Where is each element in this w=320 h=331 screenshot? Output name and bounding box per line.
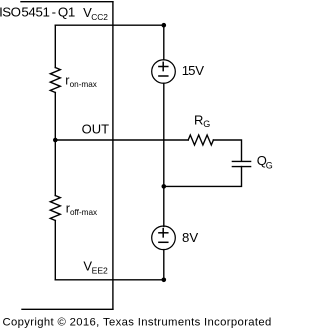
device outline right edge [112, 2, 114, 310]
voltage source V2 plus sign [159, 232, 168, 234]
svg-text:15: 15 [182, 63, 195, 78]
svg-text:G: G [266, 161, 273, 171]
device outline top edge [21, 1, 113, 3]
svg-text:on-max: on-max [70, 80, 97, 89]
svg-text:G: G [203, 119, 210, 129]
svg-text:ISO: ISO [0, 4, 21, 19]
svg-text:EE2: EE2 [92, 265, 108, 275]
voltage source V2 minus sign [159, 241, 168, 243]
wire OUT [55, 139, 188, 141]
voltage source V1 minus sign [159, 75, 168, 77]
voltage source V1 plus sign [159, 66, 168, 68]
resistor r_on-max [50, 68, 60, 93]
wire RG to QG [213, 140, 241, 161]
capacitor QG bottom plate [232, 166, 250, 168]
resistor RG [188, 135, 213, 145]
wire r_on-max to r_off-max [54, 93, 56, 196]
svg-text:Copyright © 2016, Texas Instru: Copyright © 2016, Texas Instruments Inco… [3, 316, 272, 328]
svg-text:8V: 8V [182, 230, 198, 245]
voltage source V1 15V circle [152, 60, 176, 84]
wire VEE2 rail [55, 279, 164, 281]
wire QG return to supply midpoint [164, 167, 242, 187]
svg-text:Q1: Q1 [58, 4, 75, 19]
svg-text:R: R [194, 112, 203, 127]
svg-text:5451: 5451 [21, 4, 49, 19]
svg-text:CC2: CC2 [91, 12, 108, 22]
node VCC2 junction [162, 23, 167, 28]
resistor r_off-max [50, 196, 60, 221]
wire 15V to 8V rail [163, 83, 165, 226]
svg-text:off-max: off-max [70, 208, 97, 217]
svg-text:OUT: OUT [82, 121, 110, 136]
svg-text:-: - [52, 4, 56, 19]
capacitor QG top plate [232, 160, 250, 162]
wire r_off-max to VEE2 [54, 221, 56, 280]
wire 8V to VEE2 junction [163, 250, 165, 280]
device outline bottom edge [22, 308, 113, 310]
wire VCC2 rail [55, 24, 164, 26]
voltage source V2 8V circle [152, 226, 176, 250]
wire VCC2 to 15V source [163, 25, 165, 60]
wire VCC2 to r_on-max [54, 25, 56, 67]
node VEE2 junction [162, 278, 167, 283]
node OUT junction [53, 138, 58, 143]
node supply midpoint [162, 184, 167, 189]
svg-text:V: V [195, 63, 204, 78]
